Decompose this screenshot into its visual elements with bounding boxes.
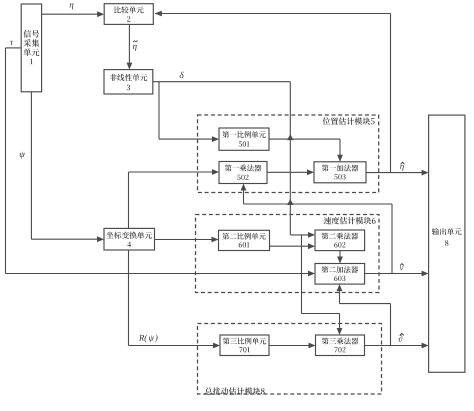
wire ∂̂ output: 702 right to output unit	[365, 333, 429, 348]
wire 501 output: right then down into 503 top	[269, 134, 343, 162]
block 602: 第二乘法器	[315, 230, 365, 251]
module M5: 位置估计模块5 dashed box	[198, 115, 379, 193]
module M7: 总扰动估计模块8 dashed box	[198, 324, 382, 395]
wire U4 right output into 601 left	[155, 237, 219, 243]
module M6: 速度估计模块6 dashed box	[196, 215, 380, 293]
wire δ branch A: down into 501 left	[159, 82, 219, 142]
block 702: 第三乘法器	[316, 335, 365, 356]
block U3: 非线性单元 3 (nonlinear unit)	[104, 70, 153, 94]
wire 601 output into 602 lower-left	[270, 243, 316, 249]
wire R(ψ): U4 bottom down, right into 701 left	[129, 250, 221, 348]
wire v̂ output: 603 right to output unit	[365, 264, 429, 277]
wire δ: U3 right, across and down, into 602 upper-left	[153, 72, 315, 238]
wire d̂ feedback: 702 output up, left, up into 603 bottom	[337, 284, 391, 345]
wire 701 output into 702 left	[269, 343, 316, 349]
block 603: 第二加法器	[315, 264, 365, 285]
wire η̂ feedback: from 503 output up and left into U2 right	[155, 11, 391, 173]
block 503: 第一加法器	[314, 162, 366, 183]
block 501: 第一比例单元	[219, 128, 269, 150]
wire δ branch B: down between modules, into 702 top	[302, 235, 343, 335]
wire ψ: U1 bottom down, right into U4 left	[20, 92, 104, 242]
block U1: 信号采集单元 1 (signal acquisition unit, tall box left)	[21, 4, 41, 92]
wire 602 output down into 603 top	[337, 251, 343, 264]
block U2: 比较单元 2 (comparison unit)	[104, 4, 153, 25]
wire η̃: U2 bottom down to U3 top	[127, 24, 138, 69]
block 601: 第二比例单元	[219, 230, 270, 250]
wire η: U1 right to U2 left	[42, 3, 105, 17]
block 502: 第一乘法器	[219, 162, 267, 184]
wire 502 output into 503 left	[267, 169, 314, 175]
wire U4 top output: up then right into 502 left	[129, 169, 220, 228]
block 701: 第三比例单元	[220, 335, 269, 356]
wire v̂ feedback: 603 output up, left, up into 502 bottom	[241, 184, 392, 274]
wire τ: U1 left, down and across into 603 left	[6, 41, 316, 277]
block U8: 输出单元 8 (output unit, tall box right)	[429, 115, 465, 372]
wire η̂ output: 503 right to output unit, junction at x390.5	[366, 162, 429, 175]
block U4: 坐标变换单元 4 (coordinate transform unit)	[104, 228, 155, 250]
